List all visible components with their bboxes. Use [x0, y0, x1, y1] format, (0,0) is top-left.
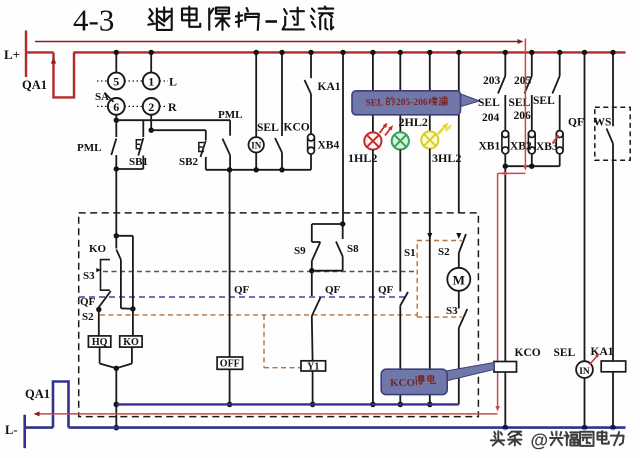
wire QF column — [584, 52, 586, 361]
title hanzi guo-liu — [283, 8, 304, 30]
wire bus to lamp 1HL2 — [372, 52, 374, 132]
svg-text:XB3: XB3 — [536, 141, 558, 153]
rail brown linkage box right — [417, 241, 462, 318]
dashed enclosure box — [79, 213, 479, 417]
svg-text:S3: S3 — [446, 305, 458, 317]
annotation red arrow at KA1 — [590, 355, 599, 365]
wire col-A to buses — [115, 368, 117, 427]
svg-text:KCO: KCO — [284, 122, 310, 134]
svg-text:PML: PML — [218, 109, 242, 121]
wire bus to SA-1 — [150, 52, 152, 72]
fuse XB3 — [556, 131, 563, 138]
contact SEL mid — [281, 52, 283, 136]
switch SA circle 1 — [143, 73, 160, 90]
wire KA1 to L- — [612, 372, 614, 428]
wire bus to S2M column — [458, 52, 460, 213]
wire col-A right branch — [116, 235, 133, 237]
wire PML-SB1 bottom join — [116, 168, 143, 170]
contact PML right — [229, 120, 231, 136]
wire KO branch to coil — [132, 309, 134, 336]
motor M — [447, 268, 470, 291]
wire node row2 horizontal — [151, 129, 206, 131]
svg-text:KO: KO — [89, 243, 107, 255]
svg-text:205-206: 205-206 — [396, 98, 428, 108]
contact SEL1 — [504, 52, 506, 76]
svg-text:S9: S9 — [294, 245, 306, 257]
contact KA1 — [310, 52, 312, 78]
wire KCO to L- — [504, 372, 506, 428]
svg-text:XB1: XB1 — [479, 141, 501, 153]
svg-text:XB2: XB2 — [510, 141, 532, 153]
breaker QA1 bottom jog — [53, 382, 69, 428]
wire bus to lamp 2HL2 — [399, 52, 401, 132]
svg-text:XB4: XB4 — [318, 140, 340, 152]
button SB1 actuator bracket — [136, 140, 141, 149]
annotation red arrow at XB3 — [553, 137, 558, 144]
svg-text:QA1: QA1 — [25, 387, 50, 401]
coil KO box — [120, 336, 142, 347]
svg-text:SEL: SEL — [257, 122, 279, 134]
switch SA circle 2 — [143, 98, 160, 115]
svg-text:M: M — [453, 273, 465, 288]
contact QF colA — [99, 291, 111, 307]
svg-text:203: 203 — [483, 75, 501, 87]
wire SA-2 down — [150, 115, 152, 130]
svg-text:S2: S2 — [82, 311, 94, 323]
contact SEL2 — [531, 52, 533, 76]
fuse XB2 — [528, 131, 535, 138]
breaker QA1 red jog — [54, 52, 75, 97]
wire SA-6 down — [115, 115, 117, 120]
callout KCO bubble — [446, 363, 494, 382]
coil Y1 box — [301, 361, 326, 371]
bus L- main — [25, 426, 53, 429]
svg-text:L+: L+ — [4, 47, 20, 62]
fuse XB4 — [308, 134, 315, 141]
svg-text:SEL: SEL — [366, 99, 384, 109]
svg-text:IN: IN — [251, 141, 262, 151]
contact S3 right — [458, 291, 460, 309]
wire lamp 2HL2 down — [399, 150, 401, 214]
contact WS — [612, 52, 614, 126]
svg-text:QF: QF — [378, 284, 394, 296]
svg-text:QF: QF — [325, 284, 341, 296]
svg-text:QF: QF — [80, 296, 96, 308]
svg-text:SEL: SEL — [509, 97, 531, 109]
svg-text:SB2: SB2 — [179, 156, 198, 168]
svg-text:204: 204 — [482, 112, 500, 124]
node L+ terminal lead — [25, 31, 27, 78]
contact SEL3 — [559, 52, 561, 76]
contact QF colE — [399, 213, 401, 292]
button SB2 actuator bracket — [199, 143, 204, 152]
wire 1HL2 drop to bus1 — [372, 213, 374, 404]
device IN1 circle — [249, 137, 264, 152]
svg-text:6: 6 — [113, 100, 119, 114]
wire XB merge horizontal — [504, 154, 506, 166]
wire L+ bus — [26, 51, 54, 53]
wire HQ KO bottoms join — [99, 347, 101, 363]
wire IN1 to node — [255, 153, 257, 170]
rail S3 maroon dashed — [103, 271, 417, 273]
rail brown branch to Y1 — [263, 315, 265, 368]
switch SA handle — [105, 93, 114, 103]
svg-text:S1: S1 — [404, 247, 416, 259]
wire S9S8 top — [342, 213, 344, 224]
wire node drop to OFF column — [229, 170, 231, 213]
svg-text:SEL: SEL — [554, 347, 576, 359]
svg-text:KCO: KCO — [515, 347, 541, 359]
svg-text:2: 2 — [148, 100, 154, 114]
callout SEL 205-206 bubble — [460, 94, 480, 108]
wire OFF to bus1 — [229, 369, 231, 404]
lamp 3HL2 — [421, 131, 438, 148]
rail QF navy dashed — [79, 296, 408, 298]
switch SA dotted links — [97, 80, 107, 82]
wire bus to IN1 — [255, 52, 257, 137]
svg-text:SB1: SB1 — [129, 156, 148, 168]
annotation red arrows at 1HL2 — [380, 125, 387, 134]
svg-text:3HL2: 3HL2 — [432, 151, 461, 165]
svg-text:OFF: OFF — [220, 359, 240, 370]
svg-text:KCO: KCO — [390, 377, 416, 389]
contact KO — [115, 236, 117, 249]
wire bus to lamp 3HL2 — [429, 52, 431, 131]
lamp 2HL2 — [392, 132, 409, 149]
contact QF colC — [311, 271, 313, 296]
svg-text:4-3: 4-3 — [73, 3, 114, 38]
device IN2 circle — [576, 361, 593, 378]
wire lamp 1HL2 down — [372, 150, 374, 213]
wire thin red top line with arrow — [35, 41, 518, 43]
wire bus to SA-5 — [115, 52, 117, 72]
svg-text:WS: WS — [594, 117, 612, 129]
contact PML left — [115, 120, 117, 137]
svg-text:1: 1 — [148, 75, 154, 89]
svg-text:2HL2: 2HL2 — [399, 115, 428, 129]
svg-text:KA1: KA1 — [318, 81, 341, 93]
svg-text:SA: SA — [95, 91, 109, 103]
coil KA1 box — [601, 361, 626, 372]
svg-text:L-: L- — [5, 423, 18, 437]
svg-text:KO: KO — [123, 337, 139, 348]
trace red elbow to KCO — [498, 172, 526, 174]
svg-text:HQ: HQ — [92, 337, 108, 348]
coil HQ box — [88, 336, 110, 347]
wire XB1 down to KCO coil — [504, 166, 506, 361]
node L- terminal lead — [23, 415, 26, 449]
svg-text:@: @ — [531, 431, 549, 451]
title hyphen — [266, 20, 278, 23]
annotation yellow arrows at 3HL2 — [438, 125, 447, 135]
bus control negative navy — [116, 403, 459, 405]
svg-text:L: L — [169, 75, 177, 89]
title hanzi ji-dian-bao-hu — [148, 7, 171, 30]
trace red vertical right — [524, 39, 526, 169]
coil KCO box — [494, 362, 517, 373]
button SB2 — [205, 130, 207, 140]
svg-text:R: R — [168, 100, 177, 114]
svg-text:QF: QF — [234, 284, 250, 296]
svg-text:S8: S8 — [347, 243, 359, 255]
wire bus to S9S8 column — [342, 52, 344, 213]
svg-text:QF: QF — [568, 117, 584, 129]
svg-text:Y1: Y1 — [307, 361, 319, 372]
wire SB2-PML-XB4 bottom node — [206, 169, 311, 171]
wire node row1 horizontal — [116, 119, 230, 121]
svg-text:PML: PML — [77, 142, 101, 154]
wire lamp 3HL2 down — [429, 149, 431, 213]
svg-text:QA1: QA1 — [22, 78, 47, 92]
svg-text:IN: IN — [579, 367, 590, 377]
wire col-A into box — [115, 169, 117, 236]
fuse XB1 — [502, 131, 509, 138]
svg-text:5: 5 — [113, 75, 119, 89]
wire S1 column — [429, 213, 431, 404]
lamp 1HL2 — [364, 132, 381, 149]
rail S2 brown dashed — [100, 314, 417, 316]
svg-text:KA1: KA1 — [591, 346, 614, 358]
wire S2 to HQ — [98, 310, 100, 336]
wire Y1 to bus1 — [312, 371, 314, 404]
switch SA circle 5 — [108, 73, 125, 90]
wire IN2 to L- — [584, 378, 586, 428]
switch S3 bracket — [101, 260, 110, 291]
switch SA circle 6 — [108, 98, 125, 115]
trace red bottom horizontal — [36, 413, 498, 415]
svg-text:S3: S3 — [83, 270, 95, 282]
switch S9 S8 pair — [312, 223, 343, 225]
switch WS dashed box — [595, 107, 630, 160]
contact S2 right — [456, 233, 461, 239]
wire XB4 to node — [310, 154, 312, 170]
button SB1 — [142, 120, 144, 137]
svg-text:206: 206 — [514, 110, 532, 122]
watermark toutiao — [486, 429, 625, 449]
coil OFF box — [217, 357, 243, 369]
svg-text:SEL: SEL — [478, 97, 500, 109]
wire OFF column — [229, 213, 231, 357]
svg-text:S2: S2 — [438, 246, 450, 258]
arrow up on QA1 jog — [51, 57, 56, 64]
svg-text:SEL: SEL — [533, 95, 555, 107]
